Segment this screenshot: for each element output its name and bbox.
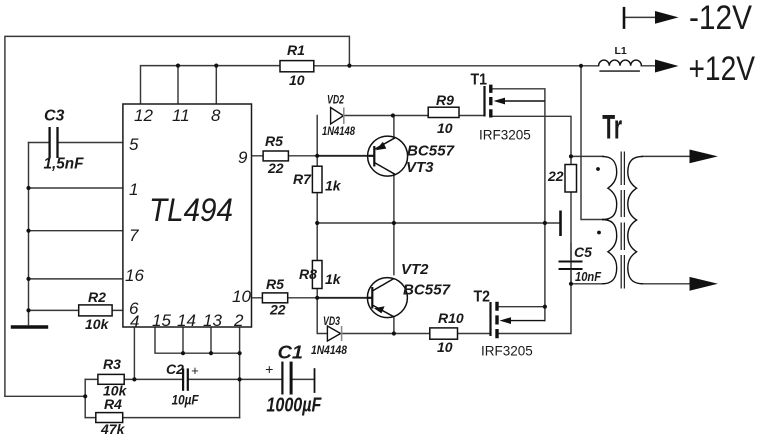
svg-text:9: 9 [238, 148, 248, 167]
resistor R5 lower [262, 276, 287, 318]
resistor R2 [79, 289, 112, 332]
wire pin16 [29, 278, 123, 280]
wire secondary bottom lead [642, 283, 691, 285]
arrow secondary top [690, 150, 718, 164]
wire pin1 [29, 187, 123, 189]
svg-text:R7: R7 [293, 171, 312, 187]
svg-text:10: 10 [437, 339, 453, 355]
junction R7 middle node [315, 221, 319, 225]
wire primary bottom lead [571, 283, 603, 285]
node terminal bar middle [559, 211, 562, 237]
wire pin7 [29, 230, 123, 232]
svg-text:Tr: Tr [602, 107, 622, 145]
svg-text:T2: T2 [474, 289, 491, 306]
junction pin10 node [315, 296, 319, 300]
resistor R8 [299, 261, 342, 289]
wire second rail [28, 143, 30, 325]
resistor R4 [96, 396, 126, 437]
transformer Tr secondary [628, 156, 643, 283]
svg-text:C5: C5 [574, 244, 592, 260]
svg-text:TL494: TL494 [149, 192, 233, 228]
svg-text:BC557: BC557 [403, 282, 451, 299]
junction R1 output / top bypass [347, 64, 351, 68]
junction pin14 bus [181, 351, 185, 355]
svg-text:IRF3205: IRF3205 [479, 128, 531, 143]
svg-text:BC557: BC557 [407, 143, 455, 160]
wire VT3 emitter up [393, 116, 395, 139]
junction pin11 bus [176, 64, 180, 68]
wire net A vertical R7 R8 [317, 116, 327, 334]
svg-text:12: 12 [134, 106, 153, 125]
wire primary top lead [571, 155, 603, 157]
svg-text:R9: R9 [436, 92, 454, 108]
junction pin7 rail [26, 229, 30, 233]
transformer phase dot lower [597, 231, 601, 235]
svg-text:16: 16 [125, 266, 144, 285]
arrow -12V output [655, 11, 679, 24]
svg-text:10: 10 [437, 120, 453, 136]
junction VT3/VT2 collectors [392, 221, 396, 225]
junction VT3 emitter / VD2 [391, 113, 395, 117]
svg-text:14: 14 [177, 311, 196, 330]
svg-text:R8: R8 [299, 266, 317, 282]
junction VT2 emitter / VD3 [392, 331, 396, 335]
junction pin1 rail [26, 186, 30, 190]
svg-text:R5: R5 [265, 133, 283, 149]
diode VD3 [311, 316, 348, 357]
junction middle wire / T1-T2 vertical [543, 221, 547, 225]
wire bottom left to R3/R4 [5, 379, 85, 417]
junction pin2 / C2 wire [238, 377, 242, 381]
junction pin4 / R3 [132, 377, 136, 381]
svg-text:C2: C2 [166, 361, 184, 377]
svg-text:R4: R4 [104, 396, 122, 412]
transistor VT3 [368, 136, 455, 176]
svg-text:-12V: -12V [689, 0, 752, 37]
svg-text:+: + [265, 361, 273, 377]
junction pin2 bus [238, 351, 242, 355]
svg-text:VT3: VT3 [406, 159, 434, 176]
svg-text:13: 13 [203, 311, 222, 330]
transistor T1 IRF3205 [471, 72, 545, 143]
capacitor C1 [265, 343, 322, 417]
svg-text:R5: R5 [266, 276, 284, 292]
svg-text:+12V: +12V [689, 50, 756, 88]
wire pin5 C3 [29, 142, 123, 144]
diode VD2 [322, 95, 355, 138]
wire VD2 R9 T1 gate [344, 115, 485, 117]
resistor R10 [430, 310, 464, 355]
junction pin8 bus [214, 64, 218, 68]
svg-text:8: 8 [211, 106, 221, 125]
svg-text:T1: T1 [471, 72, 488, 89]
capacitor C3 [44, 108, 85, 173]
svg-text:2: 2 [233, 311, 244, 330]
svg-text:1000µF: 1000µF [266, 395, 322, 417]
svg-text:10µF: 10µF [172, 392, 199, 408]
wire VT2 emitter down [393, 317, 395, 334]
svg-text:22: 22 [269, 302, 286, 318]
TL494 U1 box [123, 104, 252, 327]
resistor R7 [293, 166, 342, 193]
svg-text:R1: R1 [287, 42, 305, 58]
svg-text:R3: R3 [103, 356, 121, 372]
junction T2 drain [543, 305, 547, 309]
svg-text:11: 11 [172, 106, 190, 125]
svg-text:1N4148: 1N4148 [322, 126, 355, 138]
capacitor C5 [559, 243, 602, 284]
ground [11, 325, 48, 329]
svg-text:10: 10 [232, 287, 251, 306]
wire R1 bus pins 12,11,8 [141, 66, 281, 104]
svg-text:R10: R10 [438, 310, 464, 326]
junction primary bottom / C5 [569, 282, 573, 286]
wire pin4 stub [133, 327, 135, 379]
inductor L1 [599, 45, 642, 71]
junction pin13 bus [209, 351, 213, 355]
wire VT3 collector to VT2 collector [393, 175, 395, 275]
junction left rail / R3 R4 [83, 394, 87, 398]
junction pin9 node [315, 154, 319, 158]
wire pin10 R5b [252, 297, 318, 299]
svg-text:VD2: VD2 [327, 95, 344, 107]
resistor 22 near transformer [547, 165, 577, 193]
resistor R3 [98, 356, 128, 399]
wire pin9 R5 [252, 155, 318, 157]
resistor R5 upper [263, 133, 288, 176]
transistor T2 IRF3205 [474, 289, 545, 359]
svg-text:22: 22 [267, 160, 284, 176]
wire 22 C5 T2 source [498, 192, 571, 334]
svg-text:1,5nF: 1,5nF [44, 156, 85, 173]
transformer phase dot upper [596, 167, 600, 171]
svg-text:L1: L1 [615, 45, 627, 57]
svg-text:47k: 47k [100, 421, 126, 437]
svg-text:IRF3205: IRF3205 [481, 344, 533, 359]
wire R4 row [85, 417, 239, 419]
svg-text:C1: C1 [278, 343, 304, 363]
svg-text:1N4148: 1N4148 [311, 345, 348, 357]
resistor R1 [280, 42, 314, 88]
svg-text:VT2: VT2 [401, 261, 429, 278]
wire R3 C2 C1 row [85, 378, 314, 380]
svg-text:VD3: VD3 [323, 316, 340, 328]
svg-text:10: 10 [289, 72, 305, 88]
wire transformer center tap [581, 66, 603, 220]
svg-text:+: + [191, 363, 199, 378]
wire pin6 R2 [29, 309, 123, 311]
wire left rail and top bypass [5, 36, 350, 396]
junction T1 source / primary top [569, 154, 573, 158]
wire VD3 R10 T2 gate [342, 333, 491, 335]
svg-text:10nF: 10nF [575, 269, 602, 284]
wire middle to cap bar [317, 222, 560, 224]
svg-text:C3: C3 [44, 108, 65, 125]
transformer Tr primary [602, 156, 617, 283]
node terminal bar -12V [623, 7, 626, 29]
transistor VT2 [367, 261, 450, 318]
svg-text:1: 1 [129, 180, 138, 199]
wire -12V lead [624, 16, 657, 18]
wire secondary top lead [642, 155, 691, 157]
svg-text:4: 4 [130, 312, 139, 331]
arrow secondary bottom [690, 277, 718, 291]
transformer Tr core [621, 152, 624, 289]
arrow +12V output [655, 60, 679, 73]
wire +12V rail [314, 65, 657, 67]
svg-text:1k: 1k [325, 271, 342, 287]
svg-text:5: 5 [129, 135, 139, 154]
wire T1 drain and source [492, 89, 571, 321]
junction pin16 rail [26, 277, 30, 281]
svg-text:7: 7 [129, 226, 139, 245]
junction +12V rail / center tap [579, 64, 583, 68]
wire bottom pin bus 15 14 13 2 [155, 327, 240, 418]
svg-text:10k: 10k [85, 316, 110, 332]
svg-text:15: 15 [152, 311, 171, 330]
svg-text:1k: 1k [325, 178, 342, 194]
junction pin6 rail [26, 308, 30, 312]
node terminal bar C1 out [314, 368, 316, 393]
svg-text:22: 22 [547, 168, 564, 184]
capacitor C2 [166, 361, 199, 408]
resistor R9 [428, 92, 459, 136]
svg-text:R2: R2 [88, 289, 106, 305]
